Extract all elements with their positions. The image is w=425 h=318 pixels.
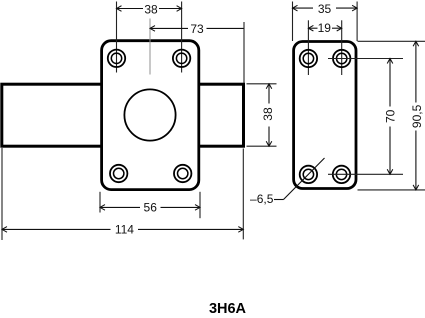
extension line through side top-left hole	[307, 20, 309, 75]
dimension 35	[293, 2, 358, 42]
cylinder circle	[124, 89, 175, 140]
dimension 38 right side	[247, 84, 277, 146]
faceplate (front view rounded plate)	[102, 41, 199, 190]
dimension 19	[308, 21, 341, 35]
svg-text:38: 38	[261, 107, 275, 121]
leader line hole diameter 6,5	[250, 158, 324, 206]
screw hole side bottom-left	[300, 166, 317, 183]
strike box plate (side view)	[294, 42, 356, 189]
screw hole side bottom-right	[333, 166, 350, 183]
dimension 73	[150, 22, 244, 83]
screw hole side top-left	[300, 50, 317, 67]
extension line through top-left hole	[116, 2, 118, 73]
svg-text:114: 114	[115, 223, 134, 237]
svg-text:–6,5: –6,5	[250, 192, 274, 206]
dimension 114	[2, 148, 243, 240]
screw hole front bottom-right	[174, 165, 191, 182]
svg-text:70: 70	[384, 109, 398, 123]
screw hole front bottom-left	[110, 165, 127, 182]
svg-text:35: 35	[318, 2, 332, 16]
dimension 38 top	[117, 3, 182, 17]
svg-text:90,5: 90,5	[410, 104, 424, 128]
svg-text:56: 56	[144, 201, 158, 215]
svg-text:73: 73	[190, 22, 204, 36]
extension line through side top-right hole	[341, 20, 343, 75]
label 3H6A	[209, 301, 247, 317]
dimension 90,5	[358, 41, 425, 190]
svg-text:19: 19	[318, 21, 332, 35]
centerline	[149, 19, 151, 75]
dimension 56	[100, 192, 200, 218]
svg-text:3H6A: 3H6A	[209, 301, 247, 317]
svg-text:38: 38	[144, 3, 158, 17]
screw hole side top-right	[333, 50, 350, 67]
dimension 70	[328, 59, 403, 175]
lock body tube (horizontal case, front view)	[2, 84, 244, 146]
extension line through top-right hole	[181, 2, 183, 73]
screw hole front top-left	[108, 50, 125, 67]
screw hole front top-right	[173, 50, 190, 67]
